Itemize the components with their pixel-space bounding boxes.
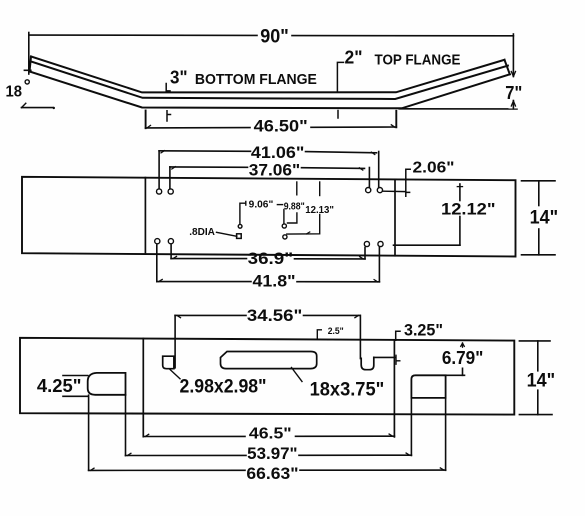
- bottom bar left bend line extended to 46.5 dim: [142, 339, 144, 437]
- 46.50 left arrow tick: [147, 125, 151, 128]
- 2.98 leader: [170, 370, 180, 379]
- 46.5 dimension line: [143, 435, 245, 437]
- 9.88 upper extension: [296, 182, 298, 195]
- svg-text:41.8": 41.8": [253, 272, 296, 291]
- 2in flange bracket: [337, 62, 343, 91]
- square hole 2.98x2.98: [163, 356, 174, 369]
- bumper left end cap: [30, 57, 32, 72]
- svg-text:37.06": 37.06": [249, 161, 301, 180]
- center square hole: [237, 234, 242, 239]
- right hole top edge extension: [446, 374, 465, 376]
- svg-text:53.97": 53.97": [247, 445, 297, 463]
- 14in bottom dimension: [519, 340, 550, 342]
- center hole lower-right: [283, 235, 287, 239]
- bumper profile line 2: [31, 62, 508, 100]
- 9.88 left drop to hole: [283, 210, 285, 224]
- hole bottom-right outer: [378, 241, 383, 246]
- svg-text:9.06": 9.06": [249, 199, 274, 210]
- left hole extension to 66.63: [88, 395, 90, 470]
- 90in right extension / 7in dim upper: [512, 34, 514, 77]
- 41.06 extension lines: [158, 151, 160, 189]
- svg-text:2.98x2.98": 2.98x2.98": [180, 377, 267, 398]
- middle bar right bend line: [394, 179, 396, 255]
- 90in left end tick: [24, 69, 30, 71]
- svg-text:34.56": 34.56": [247, 306, 302, 325]
- 41.8 extension lines: [156, 245, 158, 282]
- right U notch: [361, 357, 374, 369]
- 7in bottom arrowhead: [511, 101, 515, 106]
- hole bottom-left inner: [168, 239, 173, 244]
- svg-text:6.79": 6.79": [442, 348, 484, 368]
- 9.88 leading dash: [277, 204, 282, 206]
- svg-text:66.63": 66.63": [246, 465, 298, 483]
- hole top-left inner: [168, 189, 173, 194]
- 12.13 upper extension: [319, 182, 321, 196]
- 37.06 extension lines: [169, 167, 171, 188]
- svg-text:2.06": 2.06": [413, 159, 455, 176]
- 9.88 inner L: [288, 213, 297, 223]
- 66.63 dimension line: [89, 469, 245, 471]
- 46.50in left extension: [145, 111, 147, 129]
- svg-text:12.12": 12.12": [441, 199, 496, 218]
- 2.06 hole leader: [383, 190, 406, 192]
- bumper right end cap: [505, 60, 510, 75]
- svg-text:9.88": 9.88": [284, 201, 305, 212]
- svg-text:.8DIA: .8DIA: [189, 226, 215, 238]
- svg-text:2": 2": [345, 47, 363, 67]
- 36.9 dimension line: [171, 258, 246, 260]
- 41.06 dimension line: [159, 150, 250, 153]
- svg-text:4.25": 4.25": [37, 376, 82, 396]
- 46.50in right extension: [395, 111, 397, 128]
- svg-text:36.9": 36.9": [248, 249, 294, 268]
- hole bottom-right inner: [364, 241, 369, 246]
- 3.25 bracket: [396, 331, 400, 340]
- hole top-right inner: [366, 188, 371, 193]
- bottom bar outline: [20, 338, 514, 415]
- svg-text:46.50": 46.50": [254, 116, 308, 135]
- 18x3.75 leader: [292, 368, 303, 382]
- center hole upper-right: [282, 224, 286, 228]
- 3in lower tick: [167, 111, 171, 121]
- 7in baseline: [399, 108, 517, 110]
- svg-text:2.5": 2.5": [328, 326, 344, 336]
- 41.8 dimension line: [157, 281, 251, 283]
- 34.56 right extension to notch: [359, 315, 361, 358]
- right tow hook hole: [411, 375, 445, 398]
- svg-text:18: 18: [6, 83, 23, 100]
- bottom bar right bend line extended to 46.5 dim: [393, 340, 395, 437]
- svg-text:14": 14": [527, 371, 556, 392]
- 4.25 lower line: [63, 395, 88, 397]
- 6.79 top arrow: [461, 343, 465, 347]
- 12.13 lower dimension: [287, 215, 320, 235]
- svg-text:41.06": 41.06": [251, 143, 305, 162]
- 12.12 dimension: [459, 184, 461, 201]
- right hole extension to 66.63: [445, 398, 447, 470]
- bumper profile top flange line 1: [31, 57, 505, 93]
- 2.5 bracket: [317, 330, 321, 339]
- 7in top arrowhead: [511, 72, 515, 77]
- 7in lower dim segment: [512, 101, 514, 109]
- 18deg angle leader: [22, 107, 54, 109]
- svg-text:18x3.75": 18x3.75": [310, 380, 385, 401]
- 4.25 upper line: [63, 375, 88, 377]
- .8DIA leader: [217, 232, 237, 236]
- 2.06 bracket: [406, 169, 410, 196]
- svg-text:90": 90": [260, 26, 289, 47]
- hole top-left outer: [157, 189, 162, 194]
- 9.06 center hole: [238, 224, 242, 228]
- slot 18x3.75: [221, 352, 317, 369]
- svg-text:3": 3": [170, 68, 188, 88]
- middle bar outline: [22, 177, 516, 257]
- 6.79 lower stub: [462, 368, 464, 375]
- left hole extension to 53.97: [125, 395, 127, 456]
- svg-text:7": 7": [505, 83, 522, 103]
- 46.50in dimension line: [146, 127, 250, 129]
- 2in lower tick: [337, 111, 339, 119]
- 37.06 dimension line: [170, 166, 248, 168]
- 9.06 bracket: [240, 202, 246, 225]
- svg-text:TOP FLANGE: TOP FLANGE: [375, 52, 461, 69]
- 36.9 extension lines: [170, 245, 172, 259]
- 90in dimension line: [29, 34, 257, 36]
- svg-text:12.13": 12.13": [305, 204, 334, 216]
- svg-text:3.25": 3.25": [404, 320, 443, 339]
- 34.56 left extension to square hole: [174, 315, 176, 367]
- middle bar left bend line: [144, 178, 146, 255]
- 3in flange bracket: [166, 84, 170, 92]
- svg-text:14": 14": [530, 207, 559, 228]
- 46.50 right arrow tick: [391, 125, 395, 127]
- 53.97 dimension line: [126, 454, 247, 456]
- hole bottom-left outer: [155, 239, 160, 244]
- left tow hook hole: [88, 373, 126, 395]
- bumper profile bottom line 3: [30, 72, 510, 109]
- right hole extension to 53.97: [410, 398, 412, 456]
- notch top leader to bend line: [374, 356, 396, 358]
- hole top-right outer: [377, 188, 382, 193]
- 90in left extension line: [28, 33, 30, 75]
- 34.56 dimension line: [175, 314, 246, 316]
- svg-text:46.5": 46.5": [249, 426, 292, 443]
- 14in mid dimension: [522, 180, 556, 182]
- svg-text:BOTTOM FLANGE: BOTTOM FLANGE: [195, 71, 317, 88]
